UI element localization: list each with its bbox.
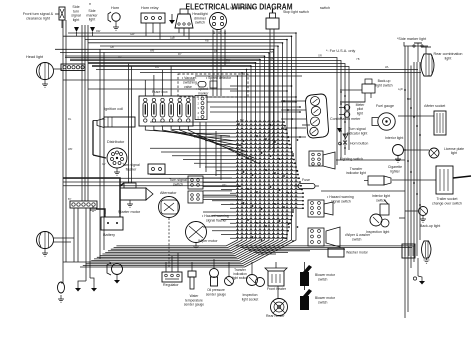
wire loom h xyxy=(230,237,286,238)
junction xyxy=(344,95,346,97)
junction xyxy=(340,117,342,119)
wire bottom bus right xyxy=(254,251,289,253)
wire coil to distributor (HT) xyxy=(92,121,94,156)
junction xyxy=(286,90,288,92)
wire right trunk xyxy=(407,46,409,312)
svg-text:Horn button: Horn button xyxy=(350,142,368,146)
junction xyxy=(259,59,261,61)
junction xyxy=(340,143,342,145)
junction xyxy=(299,111,301,113)
junction xyxy=(288,192,290,194)
svg-text:GY: GY xyxy=(102,162,106,166)
wire horn relay lead 3 xyxy=(159,23,161,40)
ground horn relay xyxy=(169,14,175,24)
wire upper h3b xyxy=(195,75,302,77)
wire tss lead xyxy=(203,199,241,201)
water temperature sender gauge xyxy=(188,262,196,289)
junction xyxy=(261,208,263,210)
cigarette lighter xyxy=(364,176,391,185)
combination meter xyxy=(306,94,329,138)
inspection light socket xyxy=(247,262,265,287)
wire meter feed xyxy=(281,118,306,120)
wire headlight2 lead b xyxy=(54,241,72,243)
wire loom h xyxy=(172,155,293,156)
wire bus Z xyxy=(91,46,278,260)
junction xyxy=(292,153,294,155)
svg-text:switching: switching xyxy=(183,81,197,85)
junction xyxy=(250,65,252,67)
junction xyxy=(419,134,421,136)
wire tss lead xyxy=(203,181,237,183)
wire conn drop 2 xyxy=(205,122,207,172)
wiper motor switch connector xyxy=(308,227,340,247)
interior light xyxy=(393,145,404,163)
wire fuse fan xyxy=(163,126,243,146)
blower motor assembly xyxy=(402,244,425,285)
distributor xyxy=(107,148,127,168)
horn relay xyxy=(141,13,165,23)
junction xyxy=(299,136,301,138)
wire fuse riser 1 xyxy=(144,80,146,96)
wire battery to starter cable xyxy=(120,183,124,214)
wire loom h xyxy=(212,230,288,231)
junction xyxy=(288,136,290,138)
wire loom h xyxy=(161,151,292,152)
junction xyxy=(299,181,301,183)
junction xyxy=(404,149,406,151)
junction xyxy=(295,32,297,34)
junction xyxy=(274,172,276,174)
wire link xyxy=(392,179,436,181)
wire loom h xyxy=(221,233,287,234)
junction xyxy=(297,226,299,228)
svg-text:Fuse: Fuse xyxy=(302,178,310,182)
ground distributor xyxy=(114,168,120,175)
ignition coil xyxy=(93,117,135,128)
wire blower sw lead xyxy=(304,262,306,272)
wire top bus 3 xyxy=(85,39,287,41)
wire top bus 7 xyxy=(60,52,269,54)
wire mid-left h1 xyxy=(63,79,195,81)
wire meter feed xyxy=(281,136,306,138)
wire top bus 10 xyxy=(88,62,256,64)
svg-text:WR: WR xyxy=(68,147,72,151)
wire loom h xyxy=(183,158,294,159)
svg-text:switch: switch xyxy=(320,6,330,10)
ignition switch xyxy=(210,13,227,30)
wire bus Z xyxy=(100,56,265,256)
wire fuse fan xyxy=(180,126,254,158)
junction xyxy=(291,36,293,38)
wire starter feed cable xyxy=(63,178,120,186)
wire loom h xyxy=(183,132,287,133)
junction xyxy=(299,106,301,108)
battery xyxy=(101,214,123,230)
wire loom h xyxy=(172,128,286,129)
junction xyxy=(404,89,406,91)
svg-text:YG: YG xyxy=(230,202,234,206)
wire lamp lead xyxy=(55,13,59,15)
svg-text:RB: RB xyxy=(205,39,209,43)
junction xyxy=(295,127,297,129)
wire ignition lead 2 xyxy=(216,30,218,97)
svg-text:WL: WL xyxy=(385,65,389,69)
junction xyxy=(297,170,299,172)
svg-text:Inspectionlight socket: Inspectionlight socket xyxy=(242,293,259,301)
svg-text:Lighting switch: Lighting switch xyxy=(340,157,363,161)
junction xyxy=(344,147,346,149)
junction xyxy=(297,139,299,141)
wire strip drop 3 xyxy=(85,208,87,281)
wire strip drop 1 xyxy=(73,208,75,262)
wire stop switch lead 2 xyxy=(273,29,275,153)
wire alternator dashed xyxy=(168,218,170,268)
wire loom h xyxy=(161,125,285,126)
junction xyxy=(291,215,293,217)
lighting switch xyxy=(309,151,335,169)
wire fuse riser 3 xyxy=(162,70,164,96)
junction xyxy=(416,125,418,127)
svg-text:*: For U.S.A. only: *: For U.S.A. only xyxy=(326,49,355,53)
wire bottom bus right xyxy=(245,248,346,250)
svg-text:Rear heater: Rear heater xyxy=(266,314,285,318)
svg-text:*Side marker light: *Side marker light xyxy=(397,37,426,41)
svg-text:signal flasher: signal flasher xyxy=(206,219,227,223)
wire loom h xyxy=(216,143,290,144)
junction xyxy=(279,158,281,160)
transfer indication light switch xyxy=(225,262,234,286)
wire link xyxy=(398,115,434,117)
wire left trunk 7 xyxy=(103,52,105,250)
alternator xyxy=(159,197,180,218)
junction xyxy=(407,98,409,100)
svg-text:Horn: Horn xyxy=(111,6,119,10)
wire loom h xyxy=(194,136,288,137)
junction xyxy=(302,196,304,198)
junction xyxy=(295,96,297,98)
wire loom h xyxy=(205,166,296,167)
svg-text:RY: RY xyxy=(178,52,182,56)
lamp: side turn signal light xyxy=(74,27,79,36)
svg-text:Regulator: Regulator xyxy=(163,283,179,287)
junction xyxy=(283,121,285,123)
svg-text:GB: GB xyxy=(110,45,114,49)
wire loom h xyxy=(230,192,303,193)
junction xyxy=(302,204,304,206)
svg-text:Back-uplight switch: Back-uplight switch xyxy=(375,79,392,87)
junction xyxy=(264,55,266,57)
wire regulator lead 3 xyxy=(177,253,179,272)
wire bus Z xyxy=(80,33,296,267)
wire right feed b xyxy=(70,61,341,161)
junction xyxy=(261,152,263,154)
vacuum switching valve (dashed box) xyxy=(178,74,248,97)
svg-text:Inspection light: Inspection light xyxy=(366,230,389,234)
junction xyxy=(274,203,276,205)
wire left trunk 1 xyxy=(62,20,64,283)
junction xyxy=(265,138,267,140)
junction xyxy=(284,125,286,127)
wire right feed d xyxy=(92,67,349,151)
junction xyxy=(296,170,298,172)
wire strip drop 2 xyxy=(77,208,79,262)
junction xyxy=(295,166,297,168)
fuse box xyxy=(139,96,193,126)
starter motor xyxy=(120,183,153,207)
junction xyxy=(247,157,249,159)
ground bottom a xyxy=(75,283,81,292)
svg-text:Alternator: Alternator xyxy=(160,191,177,195)
wire mid join xyxy=(207,101,296,103)
junction xyxy=(285,129,287,131)
wire bus Z xyxy=(116,76,237,246)
junction xyxy=(286,39,288,41)
junction xyxy=(256,191,258,193)
junction xyxy=(298,177,300,179)
wire bus Z xyxy=(108,66,251,251)
wire loom h xyxy=(221,188,302,189)
svg-text:Blower motor: Blower motor xyxy=(315,296,336,300)
svg-text:•Meter socket: •Meter socket xyxy=(424,104,445,108)
blower motor switch 2 xyxy=(300,289,312,310)
turn signal flasher xyxy=(148,164,165,174)
wire loom h xyxy=(150,173,298,174)
junction xyxy=(270,186,272,188)
junction xyxy=(279,220,281,222)
svg-text:• Hazard warning: • Hazard warning xyxy=(327,195,354,199)
wire regulator lead 1 xyxy=(165,262,167,272)
junction xyxy=(300,185,302,187)
head light (front left) xyxy=(37,63,54,88)
svg-text:RB: RB xyxy=(214,49,218,53)
wire top bus 5 xyxy=(100,45,278,47)
wire lamp feed xyxy=(61,282,63,284)
wire fuse riser 2 xyxy=(153,75,155,96)
wire bus Z xyxy=(105,63,255,253)
junction xyxy=(288,226,290,228)
wire strip drop 4 xyxy=(89,208,91,278)
wire loom h xyxy=(212,200,303,201)
svg-text:Distributor: Distributor xyxy=(107,140,125,144)
wire bus Z xyxy=(88,43,282,262)
svg-text:Back-up light: Back-up light xyxy=(420,224,440,228)
washer motor xyxy=(328,248,344,257)
svg-text:Starter motor: Starter motor xyxy=(118,210,141,214)
wire dimmer lead 2 xyxy=(183,28,185,36)
wire bus Z xyxy=(111,69,247,249)
back-up light lamp xyxy=(419,207,428,223)
wire loom h xyxy=(203,196,303,197)
junction xyxy=(243,171,245,173)
svg-text:Stop light switch: Stop light switch xyxy=(283,10,309,14)
wire bus Z xyxy=(97,53,269,257)
junction xyxy=(285,237,287,239)
fuel gauge sender xyxy=(372,113,395,130)
svg-text:Fuse box: Fuse box xyxy=(152,90,168,94)
wire link xyxy=(336,159,405,161)
wire right feed a xyxy=(65,58,337,166)
junction xyxy=(416,193,418,195)
junction xyxy=(302,192,304,194)
svg-text:*: * xyxy=(89,3,91,9)
svg-text:RG: RG xyxy=(155,65,159,69)
junction xyxy=(283,100,285,102)
wire mid drop 2 xyxy=(220,135,222,180)
horn xyxy=(108,12,120,30)
junction xyxy=(286,132,288,134)
wire top bus 8 xyxy=(65,55,265,57)
junction xyxy=(268,52,270,54)
junction xyxy=(410,171,412,173)
svg-text:LW: LW xyxy=(258,147,262,151)
wire left trunk 3 xyxy=(81,25,83,201)
svg-text:LR: LR xyxy=(118,55,121,59)
ground battery xyxy=(91,206,95,212)
junction xyxy=(287,109,289,111)
stop light switch xyxy=(266,9,279,29)
svg-text:signal switch: signal switch xyxy=(331,200,351,204)
wire right trunk xyxy=(410,66,412,269)
wire loom h xyxy=(216,170,297,171)
junction xyxy=(297,174,299,176)
svg-text:switch: switch xyxy=(318,278,328,282)
svg-text:WB: WB xyxy=(150,49,154,53)
wire dimmer lead 3 xyxy=(188,28,190,40)
wire right trunk xyxy=(413,62,415,262)
svg-text:YB: YB xyxy=(356,57,360,61)
svg-text:RL: RL xyxy=(68,117,72,121)
wire fuse fan xyxy=(188,126,260,164)
junction xyxy=(290,147,292,149)
wire headlight2 lead a xyxy=(54,237,75,239)
front heater xyxy=(265,268,287,286)
rear combination light (bottom) xyxy=(422,241,432,263)
junction xyxy=(293,159,295,161)
junction xyxy=(290,219,292,221)
svg-text:• Speed detector: • Speed detector xyxy=(206,76,232,80)
wire meter feed xyxy=(281,109,306,111)
wire meter feed xyxy=(281,100,306,102)
wire loom h xyxy=(221,203,303,204)
svg-text:• Hazard warning: • Hazard warning xyxy=(202,214,229,218)
junction xyxy=(277,45,279,47)
svg-text:GW: GW xyxy=(130,32,135,36)
svg-text:WG: WG xyxy=(222,183,226,187)
wire link xyxy=(340,89,362,91)
wire bottom bus right xyxy=(249,250,310,252)
junction xyxy=(256,222,258,224)
turn signal switch connector A xyxy=(188,176,203,189)
blower motor switch 1 xyxy=(300,265,312,290)
headlight dimmer switch xyxy=(175,9,193,28)
wire right trunk xyxy=(404,46,406,318)
lamp: front turn signal and clearance light xyxy=(59,7,65,20)
junction xyxy=(344,121,346,123)
wire starter feed b xyxy=(131,66,133,183)
wire bottom bus right xyxy=(258,253,276,255)
svg-text:RW: RW xyxy=(96,29,101,33)
wire left trunk 5 xyxy=(87,25,89,201)
junction xyxy=(295,101,297,103)
wire link xyxy=(405,210,418,212)
junction xyxy=(413,182,415,184)
wire bus Z xyxy=(83,36,292,265)
svg-text:valve: valve xyxy=(184,85,192,89)
junction xyxy=(291,85,293,87)
junction xyxy=(287,230,289,232)
svg-text:Wiper motor: Wiper motor xyxy=(198,239,218,243)
svg-text:Transferindicationlight switch: Transferindicationlight switch xyxy=(232,268,248,280)
wire link xyxy=(321,190,405,192)
junction xyxy=(419,204,421,206)
junction xyxy=(291,118,293,120)
wire bus Z xyxy=(86,40,287,264)
svg-text:Turn signalindicator light: Turn signalindicator light xyxy=(347,127,368,135)
ground bottom b xyxy=(91,282,97,292)
wire right feed c xyxy=(88,64,345,156)
lamp (bottom left small) xyxy=(58,282,65,302)
wire regulator lead 2 xyxy=(171,256,173,272)
wire stop switch lead 1 xyxy=(269,29,271,150)
oil pressure sender gauge xyxy=(210,259,219,286)
wire right feed f xyxy=(140,72,421,74)
wire top bus 4 xyxy=(88,42,283,44)
junction xyxy=(256,135,258,137)
wire horn feed xyxy=(110,262,112,264)
inspection light xyxy=(370,214,389,227)
back-up light switch xyxy=(362,79,375,98)
junction xyxy=(292,240,294,242)
connector (speed marker strip) xyxy=(195,96,207,120)
junction xyxy=(252,205,254,207)
wire tss lead xyxy=(203,194,237,196)
junction xyxy=(252,174,254,176)
svg-text:Interior light: Interior light xyxy=(385,136,403,140)
svg-text:BW: BW xyxy=(226,58,231,62)
junction xyxy=(286,234,288,236)
rear heater xyxy=(271,299,288,316)
svg-text:• Vacuum: • Vacuum xyxy=(182,76,196,80)
wire conn drop 1 xyxy=(199,122,201,168)
junction xyxy=(283,237,285,239)
wire right trunk xyxy=(419,62,421,240)
wiper motor (round) xyxy=(186,222,207,250)
junction xyxy=(274,141,276,143)
junction xyxy=(243,140,245,142)
wire loom h xyxy=(230,207,303,208)
svg-text:LgR: LgR xyxy=(398,87,403,91)
wire front heater lead xyxy=(275,262,277,268)
svg-text:BY: BY xyxy=(68,197,72,201)
junction xyxy=(344,134,346,136)
junction xyxy=(241,72,243,74)
junction xyxy=(288,140,290,142)
wire link xyxy=(302,124,310,126)
junction xyxy=(247,188,249,190)
wire bus Z xyxy=(114,73,242,248)
wire ignition lead 1 xyxy=(212,30,214,97)
wire link xyxy=(403,149,429,151)
lamp: side marker light xyxy=(90,27,95,36)
license plate light xyxy=(429,148,439,158)
wire left trunk 2 xyxy=(65,20,67,262)
trailer socket change over switch xyxy=(436,166,471,194)
junction xyxy=(344,107,346,109)
hazard warning signal switch xyxy=(308,200,333,217)
wire bottom bus right xyxy=(236,245,416,247)
junction xyxy=(265,169,267,171)
wire bus Z xyxy=(94,50,274,259)
